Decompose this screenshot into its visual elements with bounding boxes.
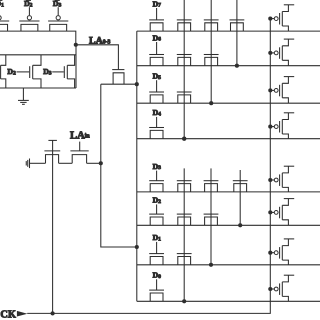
node column A junction on row D4 — [182, 137, 186, 141]
svg-text:D5: D5 — [153, 72, 162, 81]
svg-text:D2: D2 — [7, 67, 16, 76]
transistor D2-2 (NMOS) — [177, 214, 192, 225]
wire chain output — [87, 162, 101, 164]
ground (rotated, chain input) — [26, 159, 29, 169]
wire chain mid — [59, 162, 73, 164]
node M4 drain junction — [135, 82, 139, 86]
wire row D3 word line — [137, 191, 320, 193]
wire row D0 word line — [137, 300, 320, 302]
transistor M6 (NMOS, gate LAin) — [70, 151, 88, 163]
label LAin — [70, 130, 90, 151]
wire address column C (upper) — [236, 0, 238, 66]
transistor D1-2 (NMOS) — [177, 254, 192, 265]
svg-text:D3: D3 — [53, 0, 62, 8]
node column junction on row D0 — [182, 299, 186, 303]
transistor D7-4 (NMOS) — [230, 20, 245, 31]
svg-text:D4: D4 — [153, 108, 162, 117]
wire LA0-3 to pass-transistor gate — [76, 45, 119, 69]
label D3 (NMOS gate) — [43, 67, 64, 76]
wire CK bottom rail — [27, 19, 270, 314]
svg-text:D2: D2 — [24, 0, 33, 8]
transistor D7-1 (NMOS) — [149, 20, 164, 31]
transistor D5-2 (NMOS) — [177, 92, 192, 103]
label D2bar — [24, 0, 33, 8]
transistor Q3 (PMOS, gate D3bar) — [48, 7, 68, 31]
wire first-stage PMOS source/drain rail — [0, 31, 76, 45]
svg-text:D6: D6 — [153, 33, 162, 42]
wire chain input — [30, 162, 46, 164]
transistor P8 (PMOS pull-up, row at y=301.3) — [268, 275, 294, 301]
transistor M5 (NMOS, gate CK) — [44, 151, 60, 163]
wire LAin chain to lower tap (mid vertical) — [101, 84, 137, 247]
transistor D6-2 (NMOS) — [177, 55, 192, 66]
transistor D0-1 (NMOS) — [149, 290, 164, 301]
transistor M2, gate D2 (NMOS) — [30, 55, 41, 88]
node CK vertical junction — [51, 311, 55, 315]
wire NMOS block top rail — [0, 54, 76, 56]
transistor P7 (PMOS pull-up, row at y=264.8) — [268, 239, 294, 265]
wire address column A (upper) — [183, 0, 185, 139]
label D1 — [153, 233, 162, 253]
wire row D7 word line — [137, 30, 320, 32]
transistor D3-3 (NMOS) — [204, 181, 219, 192]
label CK — [0, 309, 15, 320]
transistor D7-3 (NMOS) — [204, 20, 219, 31]
svg-text:D0: D0 — [153, 271, 162, 280]
node column junction on row D5 — [209, 101, 213, 105]
transistor D1-1 (NMOS) — [149, 254, 164, 265]
transistor P5 (PMOS pull-up, row at y=191.9) — [268, 166, 294, 192]
wire M4 source/drain rail — [101, 83, 137, 85]
node column junction on row D1 — [209, 263, 213, 267]
svg-text:D1: D1 — [0, 0, 4, 8]
label D1bar — [0, 0, 4, 8]
label D7 — [153, 0, 162, 20]
label D3 — [153, 162, 162, 181]
transistor Q2 (PMOS, gate D2bar) — [19, 7, 39, 31]
label D3bar — [53, 0, 62, 8]
transistor D6-1 (NMOS) — [149, 55, 164, 66]
wire address column C (lower) — [239, 170, 241, 225]
transistor M4 (pass NMOS, gate LA0-3) — [112, 70, 124, 85]
transistor P2 (PMOS pull-up, row at y=65.7) — [268, 39, 294, 66]
node column junction on row D2 — [238, 223, 242, 227]
transistor D5-1 (NMOS) — [149, 92, 164, 103]
label D2 (NMOS gate) — [7, 67, 29, 76]
node column junction on row D4 — [182, 137, 186, 141]
transistor D7-2 (NMOS) — [177, 20, 192, 31]
svg-text:D3: D3 — [43, 67, 52, 76]
label LA0-3 — [89, 35, 111, 46]
wire address column B (upper) — [210, 0, 212, 103]
svg-text:D3: D3 — [153, 162, 162, 171]
wire address column B (lower) — [210, 168, 212, 264]
wire first-stage output node vertical — [75, 45, 77, 88]
ground — [18, 88, 29, 104]
label D6 — [153, 33, 162, 54]
wire NMOS block bottom rail — [0, 87, 76, 89]
node lower tap junction — [135, 245, 139, 249]
wire row D6 word line — [137, 65, 320, 67]
svg-text:CK: CK — [0, 309, 15, 320]
transistor Q1 (PMOS, gate D1bar) — [0, 7, 9, 31]
wire row D2 word line — [137, 224, 320, 226]
node LA0-3 junction — [74, 43, 78, 47]
wire row D4 word line — [137, 138, 320, 140]
transistor D3-1 (NMOS) — [149, 181, 164, 192]
wire row D5 word line — [137, 102, 320, 104]
wire address column A (lower) — [183, 168, 185, 301]
wire decoder source line (left vertical) — [136, 31, 138, 301]
svg-text:D1: D1 — [153, 233, 162, 242]
CK input arrow — [17, 311, 28, 317]
transistor M1 (partially cropped) (NMOS) — [1, 55, 6, 88]
transistor D3-2 (NMOS) — [177, 181, 192, 192]
wire CK gate line with stub — [48, 140, 57, 313]
node chain output junction — [99, 161, 103, 165]
transistor P1 (PMOS pull-up, row at y=31.1) — [268, 5, 294, 31]
transistor D4-1 (NMOS) — [149, 128, 164, 139]
transistor D2-1 (NMOS) — [149, 214, 164, 225]
transistor P4 (PMOS pull-up, row at y=138.7) — [268, 113, 294, 139]
transistor P3 (PMOS pull-up, row at y=103.2) — [268, 77, 294, 104]
label D2 — [153, 196, 162, 214]
svg-text:D2: D2 — [153, 196, 162, 205]
svg-text:D7: D7 — [153, 0, 162, 9]
transistor D3-4 (NMOS) — [233, 181, 248, 192]
label D0 — [153, 271, 162, 291]
transistor D6-3 (NMOS) — [204, 55, 219, 66]
transistor P6 (PMOS pull-up, row at y=225.3) — [268, 199, 294, 226]
svg-text:LAin: LAin — [70, 130, 90, 141]
transistor D2-3 (NMOS) — [204, 214, 219, 225]
label D4 — [153, 108, 162, 127]
transistor M3, gate D3 (NMOS) — [64, 55, 74, 88]
label D5 — [153, 72, 162, 93]
node column junction on row D6 — [235, 64, 239, 68]
wire row D1 word line — [137, 264, 320, 266]
